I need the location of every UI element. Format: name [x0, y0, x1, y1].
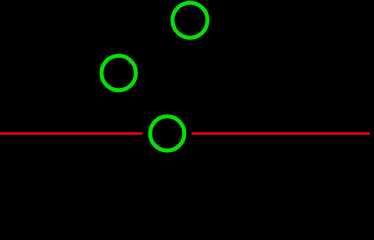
green circle middle-left [102, 56, 136, 90]
red line left segment [0, 132, 143, 135]
green circle top [173, 3, 208, 38]
green circle bottom (on line) [150, 116, 184, 150]
red line right segment [192, 132, 371, 135]
